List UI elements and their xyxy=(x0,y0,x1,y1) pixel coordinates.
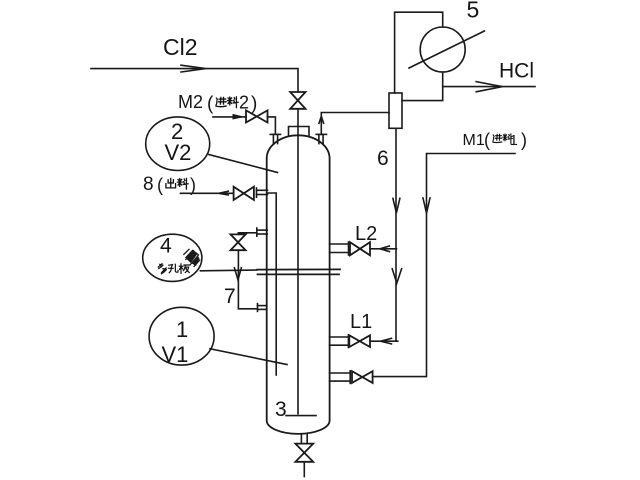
arrow down on M1 line xyxy=(423,198,430,213)
leader from circle V1 to vessel xyxy=(210,349,287,365)
arrow on Cl2 line xyxy=(181,65,206,72)
pipe from nozzle to valve 7 xyxy=(238,232,256,234)
nozzle left on dome xyxy=(270,134,280,144)
nozzle 7 bottom on left wall xyxy=(258,304,267,312)
perforated plate 多孔板 in vessel xyxy=(257,269,340,274)
pipe from valve M2 to left nozzle xyxy=(268,117,276,134)
wire drain outlet xyxy=(303,462,305,477)
nozzle 7 top on left wall xyxy=(257,228,268,236)
nozzle bottom-right on right wall xyxy=(330,371,351,384)
svg-text:1: 1 xyxy=(176,317,188,342)
valve M2 (horizontal bowtie) xyxy=(246,110,268,122)
wire HCl outlet xyxy=(443,86,535,88)
nozzle L2 on right wall xyxy=(330,242,349,255)
valve L2 (horizontal bowtie) xyxy=(350,242,370,255)
svg-text:2: 2 xyxy=(239,93,249,113)
svg-text:V1: V1 xyxy=(162,342,189,367)
wire M2 feed arrow line xyxy=(213,116,246,118)
valve 7 (vertical bowtie) xyxy=(231,234,246,250)
diagonal line through device 5 xyxy=(409,31,484,68)
CJK 料 xyxy=(227,97,238,108)
svg-text:5: 5 xyxy=(467,0,480,23)
wire discharge line 8 xyxy=(181,192,234,194)
nozzle right on dome xyxy=(316,134,326,144)
drain valve (vertical bowtie) xyxy=(295,444,313,462)
CJK 孔 xyxy=(168,264,178,273)
svg-text:6: 6 xyxy=(377,147,389,170)
wire M1 feed line xyxy=(373,154,515,377)
svg-text:): ) xyxy=(521,130,527,150)
callout circle 4 多孔板 xyxy=(143,234,202,281)
device 6 flow element (small rect) xyxy=(389,93,402,128)
callout circle 1 / V1 xyxy=(149,307,214,365)
arrow up on vapor line xyxy=(319,116,324,123)
svg-text:L1: L1 xyxy=(350,311,372,333)
leader from circle 4 to plate xyxy=(200,269,257,272)
internal discharge pipe inside vessel xyxy=(268,193,277,375)
svg-text:1: 1 xyxy=(510,132,518,149)
wire from line 6 into valve L1 xyxy=(370,340,398,342)
svg-text:(: ( xyxy=(207,94,214,115)
valve on Cl2 line (vertical bowtie) xyxy=(290,92,305,109)
svg-text:): ) xyxy=(251,94,257,115)
arrow left into L1 xyxy=(381,338,392,344)
svg-text:8: 8 xyxy=(143,174,154,195)
wire Cl2 dip tube 3 xyxy=(297,109,299,414)
arrow down on line 6 lower xyxy=(392,269,401,283)
svg-text:L2: L2 xyxy=(355,223,377,245)
svg-text:(: ( xyxy=(484,130,490,150)
svg-text:V2: V2 xyxy=(165,140,192,165)
nozzle 8 on left wall xyxy=(257,188,268,197)
svg-text:7: 7 xyxy=(224,285,236,308)
wire from line 6 into valve L2 xyxy=(370,248,397,250)
wire vapor line to device 6 xyxy=(321,113,389,135)
svg-text:): ) xyxy=(190,175,196,195)
svg-text:3: 3 xyxy=(275,398,287,421)
CJK 多 xyxy=(158,264,166,274)
leader for label 3 xyxy=(286,415,316,417)
wire loop 7 down leg xyxy=(237,233,239,235)
svg-text:M1: M1 xyxy=(463,132,485,149)
valve M1 feed (horizontal bowtie) xyxy=(352,371,373,383)
nozzle L1 on right wall xyxy=(330,335,349,348)
arrow down on line 6 upper xyxy=(393,198,400,213)
CJK 进 xyxy=(493,134,502,142)
arrow M2 (solid) xyxy=(233,114,246,120)
svg-text:4: 4 xyxy=(160,235,172,258)
arrow HCl xyxy=(476,82,502,92)
arrow pointing left on line 8 xyxy=(219,191,228,195)
svg-text:(: ( xyxy=(157,175,163,195)
device 5 enclosure box xyxy=(395,12,443,100)
svg-text:Cl2: Cl2 xyxy=(163,34,198,60)
wire Cl2 feed line xyxy=(91,69,298,92)
CJK 料 xyxy=(177,178,188,189)
CJK 进 xyxy=(216,97,226,106)
CJK 出 xyxy=(166,178,176,187)
wire line 6 vertical xyxy=(395,128,397,341)
valve L1 (horizontal bowtie) xyxy=(349,335,370,347)
svg-text:HCl: HCl xyxy=(499,60,534,83)
device 5 circle xyxy=(420,27,465,72)
arrow left into L2 xyxy=(380,246,389,252)
CJK 料 xyxy=(503,134,512,143)
arrow down on loop 7 xyxy=(234,268,241,280)
scribble blob inside circle 4 xyxy=(185,250,200,267)
callout circle 2 / V2 xyxy=(146,117,210,171)
svg-text:M2: M2 xyxy=(178,92,203,112)
vessel reactor column V1/V2 xyxy=(267,135,330,434)
leader from circle V2 to vessel xyxy=(209,155,278,173)
manway rect on vessel top xyxy=(289,127,310,137)
drain stub under vessel xyxy=(301,434,307,443)
CJK 板 xyxy=(179,264,189,274)
valve 8 (horizontal bowtie) xyxy=(234,187,254,200)
